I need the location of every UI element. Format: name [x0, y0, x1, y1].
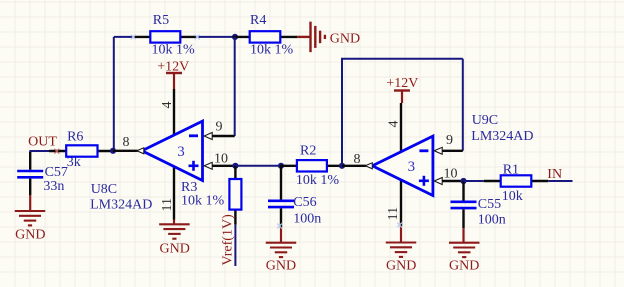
svg-text:GND: GND	[160, 242, 190, 257]
svg-text:33n: 33n	[43, 179, 64, 194]
pin 8 of U9C	[342, 152, 372, 169]
pin 10 of U9C	[434, 167, 463, 185]
svg-text:10: 10	[444, 167, 458, 182]
capacitor C56	[268, 166, 294, 228]
pin 9 of U9C	[434, 133, 463, 154]
svg-text:R2: R2	[300, 144, 316, 159]
svg-text:OUT: OUT	[28, 135, 57, 150]
svg-text:R5: R5	[153, 13, 169, 28]
resistor R4	[233, 36, 298, 38]
node junction at R6/U8C/feedback	[110, 148, 116, 154]
svg-text:10k: 10k	[502, 189, 523, 204]
wire corner down to C57	[29, 151, 31, 153]
ground right of R4	[297, 22, 360, 53]
svg-text:8: 8	[123, 135, 130, 150]
svg-text:+12V: +12V	[157, 59, 189, 74]
wire R3 down (Vref net)	[234, 225, 236, 266]
op-amp U9C	[372, 136, 433, 195]
svg-text:4: 4	[386, 121, 401, 128]
capacitor C57	[17, 152, 43, 195]
svg-text:10: 10	[214, 151, 228, 166]
svg-text:IN: IN	[547, 167, 562, 182]
pin 4 of U9C (line)	[400, 103, 402, 156]
wire OUT to R6	[29, 150, 51, 152]
pin 10 of U8C	[204, 151, 235, 169]
svg-text:10k 1%: 10k 1%	[181, 194, 225, 209]
svg-text:GND: GND	[266, 259, 296, 274]
ground below U8C	[159, 220, 190, 257]
ground below C55	[449, 228, 480, 273]
wire U9C pin10 to R1	[464, 180, 484, 182]
svg-text:GND: GND	[330, 31, 360, 46]
svg-text:GND: GND	[386, 258, 416, 273]
resistor R1	[484, 180, 549, 182]
svg-text:R1: R1	[503, 163, 519, 178]
svg-text:LM324AD: LM324AD	[471, 129, 533, 144]
svg-text:GND: GND	[449, 258, 479, 273]
svg-text:R6: R6	[67, 129, 83, 144]
pin 11 of U9C (line)	[400, 176, 402, 226]
pin 9 of U8C	[204, 120, 235, 140]
op-amp U8C	[142, 121, 203, 180]
svg-text:C55: C55	[478, 197, 501, 212]
wire R1 to IN	[548, 180, 572, 182]
off-grid markers (faint)	[131, 35, 136, 40]
svg-text:9: 9	[216, 120, 223, 135]
wire top feedback left	[114, 36, 134, 38]
svg-text:GND: GND	[15, 228, 45, 243]
svg-text:C56: C56	[293, 195, 316, 210]
svg-text:U9C: U9C	[472, 113, 498, 128]
pin 4 of U8C (line)	[173, 89, 175, 140]
+12V power U9C	[386, 76, 418, 103]
svg-text:4: 4	[160, 102, 175, 109]
wire junction down to U8C pin9	[234, 37, 236, 136]
ground below C56	[266, 228, 297, 274]
+12V power U8C	[157, 59, 189, 89]
svg-text:+12V: +12V	[386, 76, 418, 91]
resistor R3	[234, 166, 236, 225]
svg-text:8: 8	[354, 152, 361, 167]
svg-text:3: 3	[177, 144, 185, 160]
svg-text:11: 11	[160, 198, 175, 211]
wire U8C pin10 to R2	[235, 165, 281, 167]
svg-text:9: 9	[446, 133, 453, 148]
svg-text:100n: 100n	[478, 213, 506, 228]
wire feedback U9C: up, across, down to pin9	[341, 59, 343, 166]
node junction at U8C pin10	[232, 163, 238, 169]
svg-text:Vref(1V): Vref(1V)	[221, 214, 236, 266]
svg-text:10k 1%: 10k 1%	[296, 173, 340, 188]
svg-text:3: 3	[408, 159, 416, 175]
svg-text:R4: R4	[250, 13, 266, 28]
node junction above U8C	[232, 34, 238, 40]
svg-text:10k 1%: 10k 1%	[250, 43, 294, 58]
pin 8 of U8C	[113, 135, 144, 154]
ground below C57	[15, 195, 46, 243]
pin 11 of U8C (line)	[173, 162, 175, 220]
wire R5 to junction	[197, 36, 235, 38]
ground below U9C	[386, 226, 417, 273]
node junction at C56 tap	[278, 163, 284, 169]
node junction at U9C pin8	[339, 163, 345, 169]
node junction at U9C pin10	[460, 178, 466, 184]
svg-text:100n: 100n	[293, 212, 321, 227]
svg-text:10k 1%: 10k 1%	[152, 43, 196, 58]
svg-text:U8C: U8C	[91, 182, 117, 197]
wire U8C pin8 up to feedback	[113, 37, 115, 151]
capacitor C55	[451, 181, 477, 228]
svg-text:11: 11	[386, 207, 401, 220]
resistor R6	[49, 150, 114, 152]
resistor R2	[280, 165, 344, 167]
svg-text:LM324AD: LM324AD	[90, 197, 152, 212]
resistor R5	[133, 36, 197, 38]
